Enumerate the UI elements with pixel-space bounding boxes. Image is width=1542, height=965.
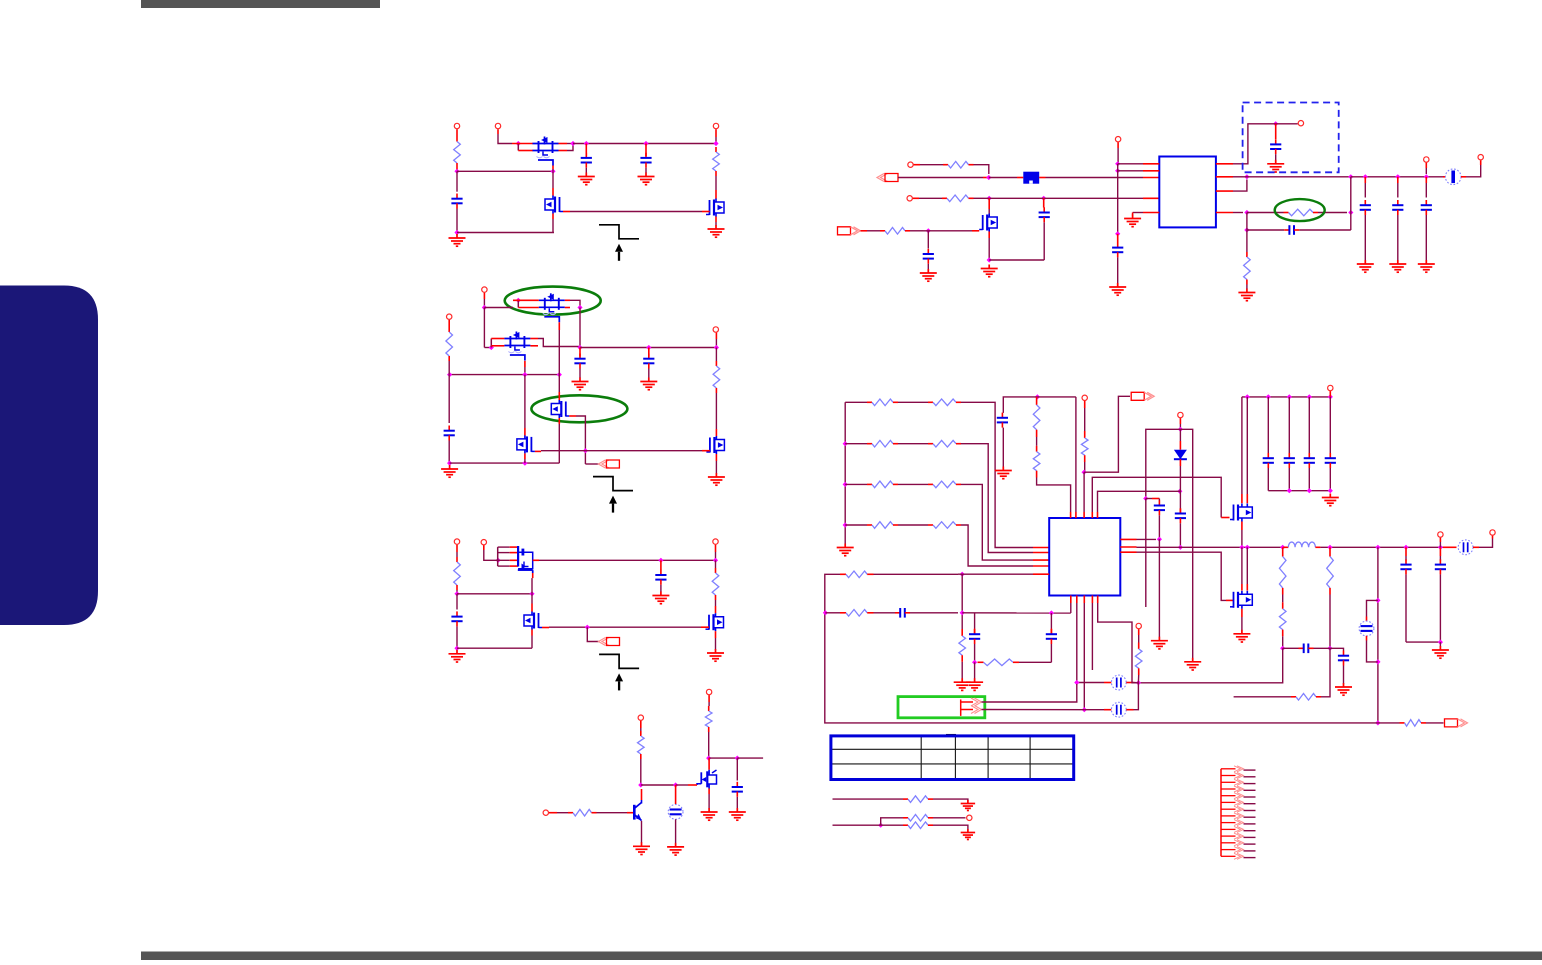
Q7 drain pin [524,428,526,436]
Q5 right connector [538,339,580,347]
U2 pin R2 [1120,546,1136,548]
port P25 [967,815,972,820]
capacitor C22 [1284,453,1295,468]
junction F2 [1082,470,1087,475]
wire E6 down [1117,164,1119,234]
gate tie wire A [570,211,702,213]
Q13 drain pin2 [1246,494,1248,503]
net connector N-F2 [1445,719,1468,727]
Q9 gate pin [542,627,549,629]
F1 pin left [1017,177,1023,179]
bottom rail A [457,232,554,234]
U2 pin T4 [1091,512,1093,518]
Q1 right connector [567,144,573,151]
pin R25 top [1084,431,1086,438]
wire lad1b [898,443,928,445]
wire C25 right [1314,647,1331,649]
ground GND-A1 [449,234,466,246]
junction F17 [1245,545,1250,550]
capacitor C29 [895,608,910,618]
wire F1 to U1 [1046,177,1144,179]
resistor R35 [1400,720,1427,727]
resistor R1 [454,142,461,164]
wire R3 to Q14 gate [1137,552,1227,600]
Q4 pin D2 [565,307,570,309]
top wire F [1034,396,1076,398]
wire T5 to diode node [1098,491,1177,512]
wire to X2 [1084,709,1104,711]
U2 pin L3 [1033,559,1049,561]
wire C12 down [1117,257,1119,283]
ground GND-F8 [1432,646,1449,658]
output rail E [1243,176,1351,178]
wire R14 gnd [1246,285,1248,290]
pin R23 top [1036,397,1038,405]
resistor R23 [1033,405,1040,430]
output rail C [539,559,715,561]
ground GND-F2 [995,467,1012,479]
wire lad2c [961,484,1033,560]
junction bottom rail A [454,230,459,235]
pin C28 top [1439,547,1441,556]
junction C2 tap [584,141,589,146]
wire N-E1 right [898,177,983,179]
junction F1 [1035,394,1040,399]
bottom rail C [457,647,532,649]
wire R3 down [448,361,450,375]
Q5 gate pin [524,361,526,367]
n-mosfet Q12 [979,214,997,232]
Q1 gate pin [552,166,554,170]
junction F15 [1328,488,1333,493]
capacitor C13 [1270,139,1281,154]
wire P24 down [1138,635,1140,643]
ground GND-B3 [640,378,657,390]
junction F9 [1266,394,1271,399]
Q14 source pin [1241,609,1243,617]
wire C24 riser [1329,397,1331,453]
wire T2 [833,824,878,826]
pin R24 bottom [1036,471,1038,478]
capacitor C30 [969,629,980,644]
Q5 pin D2 [530,345,538,347]
capacitor C14 [1360,200,1371,215]
wire D1 down [1179,466,1181,509]
wire B12-R4 [715,348,717,362]
wire R38 right [933,825,968,829]
Q8 drain pin [715,429,717,436]
pin R24 top [1036,446,1038,452]
wire Q4 gate to B7 [558,330,560,375]
resistor R24 [1033,452,1040,471]
junction C3n [454,646,459,651]
U2 pin B1 [1070,596,1072,604]
resistor R36 [903,796,933,803]
U2 pin T1 [1070,512,1072,518]
Q11 source pin [708,789,710,795]
crystal X2 [1111,702,1126,717]
port P15 [1115,137,1120,142]
junction F35 [1136,680,1141,685]
wire R23-R24 [1036,437,1038,446]
junction F30 [960,610,965,615]
wire P17 down [1425,168,1427,174]
wire top to U2 [1075,397,1077,512]
resistor R15 [867,399,898,406]
resistor R34 [1135,649,1142,668]
wire F23 right [1283,647,1299,649]
comp loop right [1050,613,1052,629]
junction B10 [522,461,527,466]
junction F8 [1245,394,1250,399]
wire F6 gnd [1158,539,1160,637]
side tab [0,286,98,626]
pin to C3 [645,144,647,157]
pin stub P22 [1439,538,1441,542]
n-mosfet Q7 [517,435,535,453]
pin gnd stub [1132,213,1134,216]
wire Q9 down [531,636,533,649]
net connector N-C [599,638,620,646]
pin stub P23 [1492,536,1494,539]
output rail F [1320,546,1443,548]
U2 pin L1 [1033,547,1049,549]
X1 pin right [1126,682,1133,684]
B2 pin bottom [1366,636,1368,641]
Q6 drain pin [558,392,560,400]
junction C5n [658,558,663,563]
resistor R12 [880,228,910,235]
junction F18 [1280,545,1285,550]
wire C21 down [1267,468,1269,491]
junction D2 [735,756,740,761]
pin stub P11 [640,721,642,728]
bead FB3 pin R [1473,546,1479,548]
wire R29 up [1321,648,1330,697]
Q7 gate pin [535,450,541,452]
wire F29 right [958,573,1033,575]
pin N-E2 [861,230,868,232]
wire C28 down [1439,574,1441,642]
wire to C1 [456,171,458,191]
capacitor C27 [1400,559,1411,574]
capacitor C3 [640,153,651,168]
frame rail F [825,574,1378,723]
pin stub P18 [1480,160,1482,165]
pin to C16 [1425,177,1427,183]
ground GND-T1 [961,800,975,810]
wire Q6 gate down [576,416,585,464]
phase rail [1137,546,1286,548]
wire P15 down [1117,148,1119,164]
output rail E2 [1351,176,1443,178]
wire Q16 gate down [531,578,533,594]
step waveform C [599,654,639,668]
ground GND-C1 [449,650,466,662]
capacitor C26 [1338,651,1349,666]
comp loop bottom [1019,661,1051,663]
port P14 [907,196,912,201]
wire FB2 out [1466,165,1481,177]
wire to C15 [1397,183,1399,198]
Q5 pin S2 [491,345,504,347]
Q11 drain pin [708,758,710,770]
wire to Q2 drain [552,171,554,188]
pin stub P20 [1179,418,1181,424]
wire T2 up [881,818,903,825]
junction E13 [1395,174,1400,179]
junction F31 [823,610,828,615]
Q6 gate pin [569,415,576,417]
node A1 junction [454,169,459,174]
n-mosfet Q3 [706,199,724,217]
port P19 [1082,395,1087,400]
junction E5 [926,228,931,233]
Q4 gate pin [558,322,560,330]
junction E10 [1244,174,1249,179]
wire F4 cross [1146,429,1193,658]
wire D4 to Q11 [676,784,688,786]
wire B7 to Q6 [558,375,560,392]
pin stub P3 [715,129,717,137]
highlight box G1 [898,697,985,718]
cap bank return [1268,490,1330,492]
wire P9 down [715,552,717,560]
pin to B1 cell [675,785,677,804]
wire Q8 gnd [715,461,717,474]
wire P14 right [919,197,942,199]
capacitor C17 [1284,225,1299,235]
junction F6 [1157,537,1162,542]
resistor R11 [942,195,974,202]
pin stub P5 [448,320,450,327]
port P24 [1136,623,1141,628]
wire P3 down [715,137,717,144]
wire C27 down [1405,574,1407,642]
junction C2n [529,591,534,596]
wire R30 right [874,573,959,575]
wire R36 right [933,799,968,800]
Q1 pin D2 [559,150,568,152]
resistor R16 [928,399,961,406]
pin to C5 [579,348,581,357]
connector J2 [961,698,982,716]
Q13 drain pin1 [1241,494,1243,503]
dashed highlight box [1243,103,1339,173]
pin R32 right [867,612,873,614]
junction E7 [1115,168,1120,173]
wire Q13 drain2 [1246,397,1248,494]
junction F20 [1375,545,1380,550]
wire to Q5 [484,347,491,349]
Q14 gate pin [1226,599,1234,601]
wire C11 down [1043,222,1045,260]
wire R13 right [1318,212,1347,214]
wire to C26 [1330,648,1344,650]
junction B7 [557,372,562,377]
D1 anode pin [1179,441,1181,450]
wire E7 right [1118,170,1143,172]
port P7 [454,539,459,544]
wire E5 to Q12 gate [923,230,972,232]
Q5 pin S [491,338,504,340]
wire lad0c [961,402,1033,547]
port P16 [1298,121,1303,126]
wire D rail 2 [737,757,763,759]
comp loop left [974,613,976,629]
crystal X1 [1111,675,1126,690]
Q14 drain pin1 [1241,584,1243,591]
wire Q2 source down [552,219,554,233]
resistor R3 [446,327,453,361]
resistor R20 [928,481,961,488]
wire D rail [709,757,738,759]
junction E8 [1115,231,1120,236]
Q5 left connector [490,339,492,348]
wire C9 gnd [736,797,738,809]
wire C8 gnd [660,585,662,592]
wire lad1a [845,443,867,445]
resistor R7 [705,706,712,732]
junction F4 [1178,427,1183,432]
X1 pin left [1104,682,1111,684]
junction F11 [1307,394,1312,399]
pin to C12 [1117,234,1119,243]
wire FB [1233,212,1243,214]
net connector N-B [598,460,619,468]
resistor R14 [1244,252,1251,285]
wire to B2 cell [1367,600,1378,616]
junction E14 [1424,174,1429,179]
junction F14 [1307,488,1312,493]
wire F2 to net arrow [1084,396,1130,472]
X2 pin left [1104,709,1111,711]
wire lad1c [961,444,1033,553]
wire E4 right [989,259,1044,261]
wire to C9 [736,758,738,780]
wire R12 right [910,230,923,232]
capacitor C28 [1435,559,1446,574]
wire R31 gnd [961,662,963,679]
D1 cathode pin [1179,459,1181,466]
pin stub P13 [914,164,920,166]
junction B12 [714,345,719,350]
wire to C7 [456,594,458,610]
U1 pin 2 [1143,170,1159,172]
resistor R5 [454,557,461,590]
wire F29 down [961,574,963,629]
n-mosfet Q6 [551,400,569,418]
Q1 pin D [559,143,568,145]
ground GND-F10 [966,678,983,690]
port P2 [495,123,500,128]
Q16 gate pin [532,573,534,578]
resistor R33 [984,659,1014,666]
wire P12 right [557,812,568,814]
pin stub P8 [483,545,485,550]
wire FB right [1247,212,1284,214]
wire row2 d [962,612,1071,614]
wire F3 [1176,490,1180,492]
highlight ellipse E3 [1275,199,1325,221]
resistor R22 [928,522,961,529]
Q1 pin S [512,143,533,145]
ground GND-B2 [572,378,589,390]
junction C7n [585,625,590,630]
junction B5 [447,372,452,377]
wire T4 to Q13 gate [1092,477,1221,517]
wire lad2a [845,483,867,485]
Q4 pin S2 [518,307,539,309]
junction B8 [583,448,588,453]
capacitor C24 [1325,453,1336,468]
junction D4 [673,782,678,787]
wire to Q12 [988,209,990,214]
wire lad3b [898,524,928,526]
cell B1 [668,805,683,820]
regulator U1 [1159,157,1216,228]
wire X1 right [1134,682,1139,684]
bead FB2 [1445,169,1461,185]
capacitor C8 [655,570,666,585]
junction F10 [1287,394,1292,399]
wire to C14 [1364,183,1366,198]
junction Q1 output [570,141,575,146]
ground GND-E2 [920,269,937,281]
ground GND-C3 [707,649,724,661]
resistor R26 [1279,557,1286,588]
wire B2 return [1367,641,1378,662]
stub C27 [1405,556,1407,561]
junction E16 [1348,210,1353,215]
Q12 source pin [988,232,990,239]
n-mosfet Q8 [706,436,724,454]
wire B1 down [483,308,485,348]
pin to C13 [1275,124,1277,139]
pin R26 top [1282,547,1284,556]
wire E2 right [984,197,1039,199]
pin R25 bottom [1084,455,1086,462]
wire C5 gnd [579,369,581,379]
wire R7 down [708,732,710,758]
wire Q15 emitter [641,821,643,843]
p-mosfet Q1 [533,137,559,166]
wire C2 to gnd [585,168,587,173]
junction E12 [1363,174,1368,179]
resistor R2 [713,147,720,176]
Q1 pin S2 [518,150,533,152]
pin stub P10 [708,695,710,702]
capacitor C20 [1175,508,1186,523]
ground GND-F3 [1151,637,1168,649]
wire C18 gnd [1002,428,1004,467]
U2 pin L6 [1033,573,1049,575]
resistor R19 [867,481,898,488]
wire to net arrow C [587,627,598,641]
npn transistor Q15 [634,800,642,821]
wire N-E2 right [867,230,880,232]
ground GND-E9 [1238,289,1255,301]
junction F3 [1177,489,1182,494]
junction F29 [960,572,965,577]
junction E6 [1115,161,1120,166]
highlight ellipse E2 [531,395,627,422]
junction Q4 left [516,298,521,303]
ground GND-A3 [638,173,655,185]
junction C6n [713,558,718,563]
ground GND-F4 [1184,658,1201,670]
U1 pin 7 [1216,176,1233,178]
